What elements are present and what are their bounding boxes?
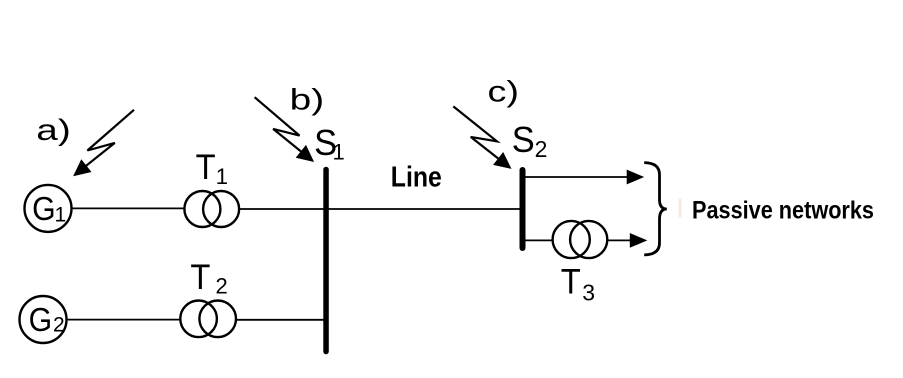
wire G1 to T1 bbox=[72, 207, 185, 209]
wire top branch from S2 bbox=[525, 176, 630, 178]
wire S2 to T3 bbox=[525, 239, 554, 241]
svg-text:2: 2 bbox=[53, 314, 65, 337]
transformer T3 bbox=[553, 221, 608, 306]
svg-text:G: G bbox=[32, 190, 56, 227]
curly brace bbox=[644, 163, 667, 255]
svg-text:Passive networks: Passive networks bbox=[692, 196, 874, 224]
svg-text:Line: Line bbox=[391, 162, 442, 194]
transformer T2 bbox=[180, 258, 236, 337]
artifact faint line bbox=[679, 199, 682, 218]
svg-text:1: 1 bbox=[216, 164, 228, 189]
svg-text:2: 2 bbox=[535, 136, 548, 162]
svg-text:a): a) bbox=[36, 114, 71, 147]
svg-text:S: S bbox=[512, 119, 535, 160]
arrowhead bottom branch bbox=[630, 233, 648, 248]
arrowhead top branch bbox=[627, 170, 645, 185]
svg-text:1: 1 bbox=[333, 139, 345, 164]
svg-text:1: 1 bbox=[55, 204, 67, 227]
wire Line S1 to S2 bbox=[329, 208, 521, 210]
wire T2 to bus S1 bbox=[237, 319, 325, 321]
svg-text:T: T bbox=[561, 262, 581, 301]
wire G2 to T2 bbox=[67, 319, 181, 321]
svg-text:T: T bbox=[196, 148, 216, 187]
svg-text:G: G bbox=[29, 301, 52, 338]
generator G2 bbox=[20, 296, 67, 343]
svg-text:c): c) bbox=[488, 76, 520, 109]
generator G1 bbox=[25, 185, 72, 232]
busbar S1 bbox=[314, 122, 345, 352]
svg-text:2: 2 bbox=[216, 274, 228, 299]
svg-text:T: T bbox=[190, 258, 210, 297]
wire T3 to arrow bbox=[607, 239, 634, 241]
svg-text:3: 3 bbox=[582, 280, 595, 306]
svg-text:b): b) bbox=[290, 84, 325, 117]
lightning arrow a bbox=[73, 110, 134, 176]
busbar S2 bbox=[512, 119, 548, 248]
lightning arrow b bbox=[255, 97, 315, 162]
lightning arrow c bbox=[453, 106, 511, 168]
wire T1 to bus S1 bbox=[240, 208, 325, 210]
transformer T1 bbox=[184, 148, 239, 227]
